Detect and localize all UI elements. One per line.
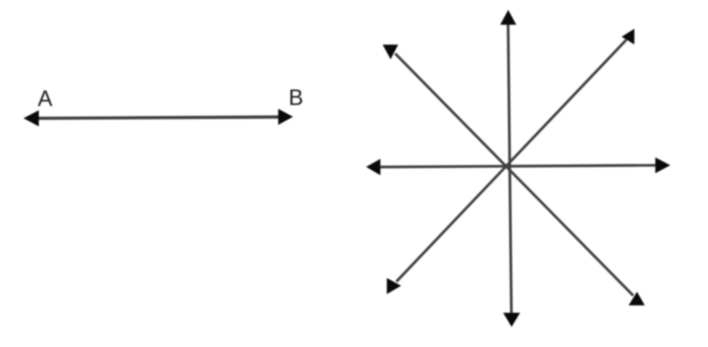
arrowhead top (points up) xyxy=(500,10,516,25)
svg-text:B: B xyxy=(289,85,304,110)
arrowhead at down-left end (points right) xyxy=(387,278,401,294)
arrowhead right of AB xyxy=(278,109,293,125)
star: up-left to down-right diagonal xyxy=(395,54,633,296)
arrowhead right (points right) xyxy=(655,157,670,173)
arrowhead left of AB xyxy=(24,110,39,126)
arrowhead at up-right end (points left) xyxy=(622,29,635,45)
arrowhead at down-right end (points up) xyxy=(629,292,645,306)
svg-text:A: A xyxy=(38,86,53,111)
arrowhead left (points left) xyxy=(366,159,380,175)
line segment AB shaft xyxy=(37,117,281,118)
star: up-right to down-left diagonal xyxy=(396,40,626,282)
arrowhead at up-left end (points down) xyxy=(383,45,399,60)
star: horizontal line xyxy=(380,165,655,167)
arrowhead bottom (points down) xyxy=(503,313,520,327)
star: vertical line xyxy=(508,25,511,314)
